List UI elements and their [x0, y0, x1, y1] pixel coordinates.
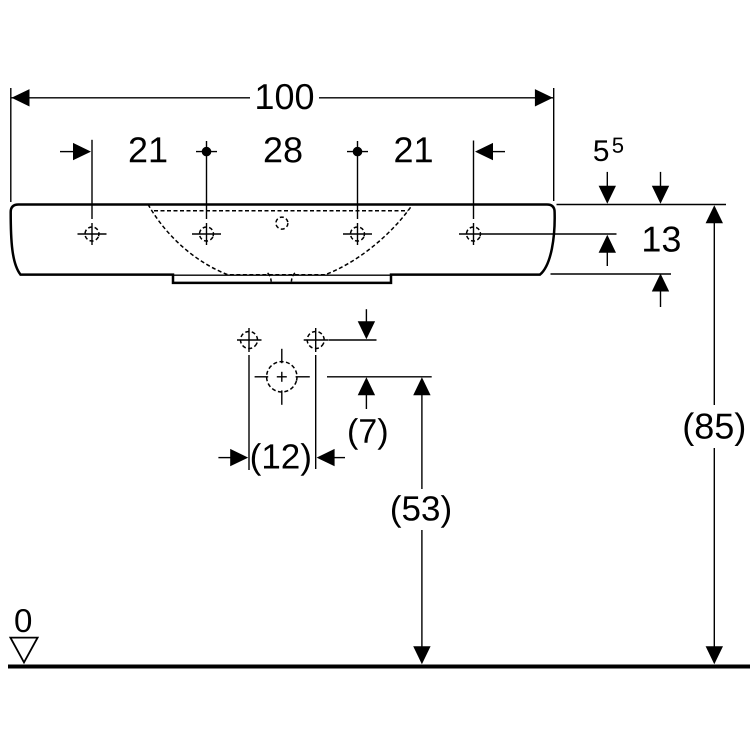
dimension 85 up arrow — [706, 205, 723, 223]
dimension 53 down arrow — [413, 646, 430, 664]
dimension 53 line upper part — [421, 394, 423, 489]
basin bottom reference line extending right — [551, 273, 672, 275]
arrow pointing right at tap hole 1 line — [60, 143, 91, 160]
drain recess hidden arcs — [268, 273, 295, 282]
label (85) — [685, 412, 745, 446]
dimension 13 up arrow — [652, 274, 669, 308]
dimension 13 down arrow — [652, 172, 669, 204]
dimension 7 up arrow — [358, 377, 375, 409]
bowl hidden rim line — [154, 210, 408, 212]
washbasin outline — [11, 205, 555, 283]
label (7) — [349, 418, 386, 450]
fixing hole right crosshair — [304, 328, 329, 352]
extension line tap hole 4 — [473, 141, 475, 220]
top reference line extending right — [557, 204, 727, 206]
fixing hole left crosshair — [237, 328, 262, 352]
floor line — [8, 665, 750, 669]
dimension line 100 — [11, 97, 553, 99]
label 100 — [257, 84, 313, 110]
tap hole 1 crosshair — [78, 223, 107, 245]
fixing hole right extension line — [315, 355, 317, 469]
dimension 7 down arrow — [358, 309, 375, 339]
floor level triangle symbol — [10, 638, 37, 663]
drain centre mark — [255, 349, 310, 405]
dot marker tap hole 3 — [347, 147, 368, 157]
arrowhead right of dimension 100 — [535, 89, 553, 106]
label 13 — [644, 226, 680, 252]
fixing hole reference line — [329, 339, 377, 341]
dimension 12 right-pointing arrow — [218, 449, 248, 466]
extension line tap hole 3 — [357, 141, 359, 219]
label 28 — [265, 137, 302, 163]
dimension 5.5 up arrow — [599, 235, 616, 266]
fixing hole left extension line — [248, 355, 250, 470]
tap hole reference line extending right — [488, 233, 617, 235]
label 0 floor level — [15, 609, 31, 632]
extension line tap hole 1 — [91, 140, 93, 219]
dimension 53 up arrow — [413, 377, 430, 395]
arrow pointing left at tap hole 4 line — [475, 143, 505, 160]
drain reference line — [327, 376, 432, 378]
dimension 53 line lower part — [421, 530, 423, 647]
dot marker tap hole 2 — [196, 147, 217, 157]
extension line right of overall width dimension — [553, 88, 555, 201]
label (53) — [392, 495, 450, 528]
label (12) — [252, 443, 310, 476]
dimension 85 down arrow — [706, 646, 723, 664]
tap hole 2 crosshair — [192, 223, 221, 245]
ledge top line under bowl — [173, 274, 391, 276]
label 21 left — [130, 137, 167, 162]
dimension 5.5 down arrow — [599, 172, 616, 204]
tap hole 3 crosshair — [343, 223, 372, 245]
dimension 85 line lower part — [713, 448, 715, 647]
label 21 right — [395, 137, 432, 162]
extension line tap hole 2 — [206, 141, 208, 219]
label 5.5 superscript digit — [613, 138, 623, 153]
dimension 85 line upper part — [713, 222, 715, 405]
label 5.5 main digit — [594, 140, 608, 161]
tap hole 4 crosshair — [459, 223, 488, 245]
overflow hidden circle — [276, 217, 288, 229]
extension line left of overall width dimension — [10, 88, 12, 202]
bowl hidden outline — [148, 204, 413, 274]
dimension 12 left-pointing arrow — [317, 449, 345, 466]
arrowhead left of dimension 100 — [12, 89, 30, 106]
